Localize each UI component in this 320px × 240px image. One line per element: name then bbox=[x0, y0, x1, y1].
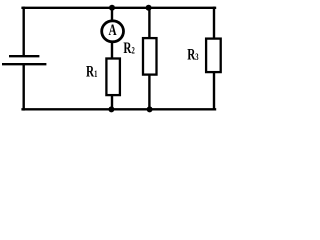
wire R1 to bottom bbox=[111, 96, 113, 109]
wire R2 to bottom bbox=[148, 76, 150, 110]
junction dot top A bbox=[109, 5, 115, 11]
wire left lower (battery branch) bbox=[23, 65, 25, 109]
junction dot bottom B bbox=[147, 106, 153, 112]
battery B1 bottom plate bbox=[3, 63, 45, 65]
ammeter A1 circle bbox=[102, 21, 124, 42]
wire right upper (R3 branch) bbox=[213, 8, 215, 39]
wire right lower (R3 branch) bbox=[213, 72, 215, 109]
junction dot top B bbox=[146, 5, 152, 11]
wire top bbox=[23, 7, 215, 9]
wire R2 branch top bbox=[148, 8, 150, 38]
resistor R2 body bbox=[143, 38, 157, 75]
label R1 bbox=[86, 63, 97, 80]
wire ammeter branch top bbox=[111, 8, 113, 21]
ammeter label A bbox=[109, 21, 117, 38]
label R2 bbox=[123, 39, 134, 56]
wire bottom bbox=[23, 108, 215, 110]
battery B1 top plate bbox=[10, 55, 38, 57]
label R3 bbox=[187, 46, 198, 63]
wire ammeter to R1 bbox=[111, 43, 113, 58]
resistor R3 body bbox=[206, 39, 221, 73]
svg-text:A: A bbox=[109, 21, 117, 38]
junction dot bottom A bbox=[108, 106, 114, 112]
wire left upper (battery branch) bbox=[23, 8, 25, 55]
resistor R1 body bbox=[106, 59, 120, 96]
